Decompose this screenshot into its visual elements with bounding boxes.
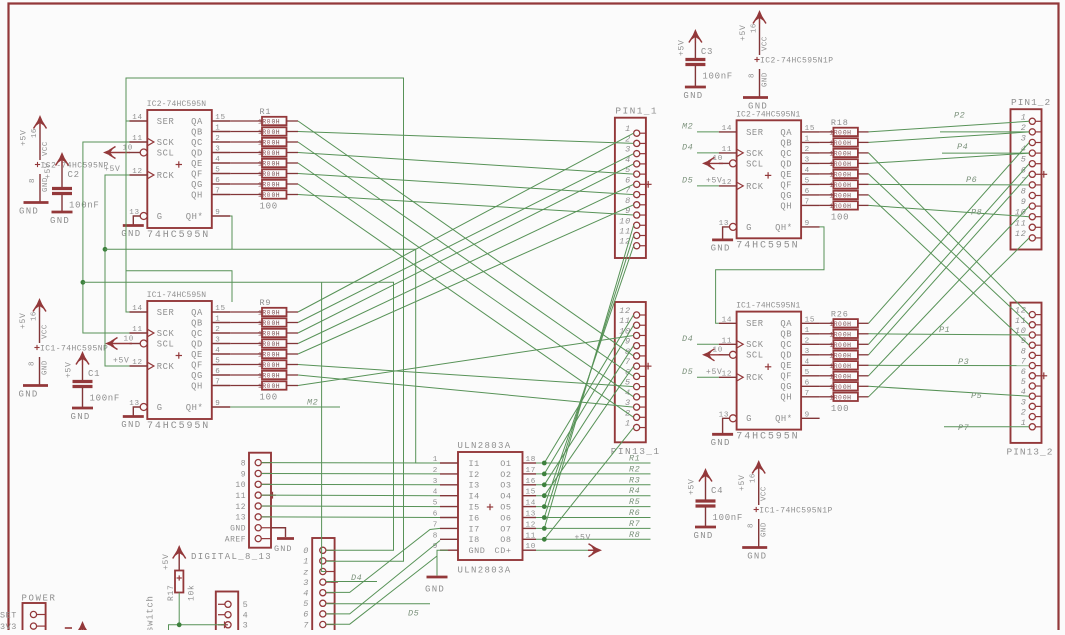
svg-text:QH: QH bbox=[780, 393, 792, 403]
svg-text:M2: M2 bbox=[682, 121, 693, 131]
svg-text:+5V: +5V bbox=[677, 39, 686, 56]
+5V arrow on ULN CD+ pin bbox=[536, 549, 588, 551]
svg-text:0H: 0H bbox=[272, 320, 280, 327]
svg-text:VCC: VCC bbox=[762, 36, 770, 51]
IC IC2-74HC595N1 74HC595 bbox=[711, 110, 820, 253]
power pins symbol IC1-74HC595NP (+5V / VCC 16, GND 8) bbox=[19, 298, 109, 400]
wires DIGITAL_8_13 pins 8-13 to ULN inputs I1-I6 bbox=[261, 462, 440, 464]
svg-text:1R0: 1R0 bbox=[829, 151, 842, 158]
svg-text:QE: QE bbox=[191, 350, 203, 360]
svg-text:1R0: 1R0 bbox=[829, 321, 842, 328]
svg-text:10: 10 bbox=[124, 336, 135, 344]
svg-text:14: 14 bbox=[526, 500, 537, 508]
svg-text:100nF: 100nF bbox=[713, 513, 744, 523]
svg-text:1R0: 1R0 bbox=[258, 192, 271, 199]
svg-text:P2: P2 bbox=[954, 111, 965, 121]
wire digital pin 4 to ULN I7 bbox=[326, 528, 440, 592]
svg-text:1: 1 bbox=[215, 316, 220, 324]
svg-text:RCK: RCK bbox=[746, 373, 764, 383]
svg-text:10: 10 bbox=[713, 346, 724, 354]
svg-text:2: 2 bbox=[215, 135, 220, 143]
svg-text:8: 8 bbox=[29, 361, 37, 366]
svg-text:1R0: 1R0 bbox=[829, 331, 842, 338]
svg-text:R18: R18 bbox=[831, 118, 849, 128]
svg-text:GND: GND bbox=[747, 552, 767, 562]
svg-text:M2: M2 bbox=[307, 398, 318, 408]
svg-text:9: 9 bbox=[805, 220, 810, 228]
svg-text:11: 11 bbox=[235, 492, 246, 501]
net label D5 stub at digital pin 5 bbox=[326, 603, 430, 605]
svg-text:18: 18 bbox=[526, 456, 537, 464]
svg-text:QG: QG bbox=[191, 371, 203, 381]
IC IC1-74HC595N 74HC595 bbox=[121, 291, 230, 432]
wires IC2/IC1 outputs to R1/R9 bbox=[230, 120, 262, 122]
svg-text:QE: QE bbox=[780, 361, 792, 371]
svg-text:7: 7 bbox=[805, 198, 810, 206]
svg-text:1R0: 1R0 bbox=[829, 342, 842, 349]
+5V arrow (cut at bottom edge) bbox=[78, 621, 88, 633]
svg-text:QD: QD bbox=[191, 339, 203, 349]
svg-text:R6: R6 bbox=[629, 508, 640, 518]
svg-text:C2: C2 bbox=[68, 170, 80, 180]
svg-text:3: 3 bbox=[215, 337, 220, 345]
svg-text:R9: R9 bbox=[260, 298, 272, 308]
svg-text:I2: I2 bbox=[469, 470, 480, 480]
svg-text:8: 8 bbox=[29, 178, 37, 183]
svg-text:8: 8 bbox=[625, 196, 631, 206]
svg-text:SET: SET bbox=[0, 611, 17, 621]
svg-text:2: 2 bbox=[215, 326, 220, 334]
svg-text:+5V: +5V bbox=[706, 368, 723, 377]
svg-text:ULN2803A: ULN2803A bbox=[458, 566, 512, 576]
svg-text:100: 100 bbox=[831, 404, 849, 414]
svg-text:QG: QG bbox=[780, 191, 792, 201]
svg-text:P1: P1 bbox=[939, 325, 950, 335]
svg-text:8: 8 bbox=[241, 459, 246, 468]
svg-text:P3: P3 bbox=[958, 357, 969, 367]
svg-text:1R0: 1R0 bbox=[258, 119, 271, 126]
capacitor C2 100nF bbox=[44, 152, 100, 226]
wire RCK chain bbox=[105, 175, 130, 366]
svg-text:SCK: SCK bbox=[157, 329, 175, 339]
svg-text:QH: QH bbox=[191, 381, 203, 391]
wires right IC outputs to R18/R26 bbox=[820, 131, 834, 133]
svg-text:QA: QA bbox=[780, 319, 792, 329]
svg-text:C3: C3 bbox=[701, 47, 713, 57]
svg-text:2: 2 bbox=[1021, 408, 1027, 418]
connector POWER (cut at bottom) bbox=[0, 594, 57, 634]
svg-text:R8: R8 bbox=[629, 530, 640, 540]
svg-text:1R0: 1R0 bbox=[829, 384, 842, 391]
svg-text:1R0: 1R0 bbox=[829, 140, 842, 147]
svg-text:0H: 0H bbox=[272, 140, 280, 147]
svg-text:1R0: 1R0 bbox=[829, 394, 842, 401]
wire IC2.SER loop to digital pin 1 bbox=[126, 78, 404, 561]
svg-text:7: 7 bbox=[625, 357, 631, 367]
svg-text:4: 4 bbox=[243, 611, 249, 621]
svg-text:0H: 0H bbox=[843, 193, 851, 200]
svg-text:5: 5 bbox=[1021, 155, 1027, 165]
svg-text:O2: O2 bbox=[500, 470, 511, 480]
svg-text:1: 1 bbox=[625, 124, 631, 134]
svg-text:5: 5 bbox=[215, 358, 220, 366]
svg-text:5: 5 bbox=[805, 177, 810, 185]
svg-text:P6: P6 bbox=[966, 175, 977, 185]
junction RCK chain bbox=[103, 247, 108, 252]
svg-text:QB: QB bbox=[780, 138, 792, 148]
svg-text:QF: QF bbox=[780, 372, 792, 382]
svg-text:D5: D5 bbox=[682, 175, 693, 185]
svg-text:74HC595N: 74HC595N bbox=[736, 432, 799, 443]
svg-text:74HC595N: 74HC595N bbox=[147, 230, 210, 241]
svg-text:GND: GND bbox=[71, 412, 91, 422]
power pins symbol IC2-74HC595NP (+5V / VCC 16, GND 8) bbox=[19, 115, 109, 217]
svg-text:QD: QD bbox=[780, 351, 792, 361]
ground on DIGITAL_8_13 GND pin bbox=[271, 528, 286, 537]
svg-text:1: 1 bbox=[625, 419, 631, 429]
svg-text:10: 10 bbox=[235, 481, 246, 490]
svg-text:+5V: +5V bbox=[65, 361, 74, 378]
svg-text:QA: QA bbox=[191, 308, 203, 318]
svg-text:14: 14 bbox=[132, 305, 143, 313]
svg-text:P7: P7 bbox=[958, 423, 970, 433]
svg-text:5: 5 bbox=[215, 167, 220, 175]
svg-text:16: 16 bbox=[526, 478, 537, 486]
wire IC2 QH* drop to bus bbox=[230, 216, 232, 249]
svg-text:CD+: CD+ bbox=[495, 546, 512, 556]
svg-text:0H: 0H bbox=[843, 203, 851, 210]
svg-text:11: 11 bbox=[619, 227, 631, 237]
svg-text:QB: QB bbox=[191, 127, 203, 137]
svg-text:POWER: POWER bbox=[22, 594, 57, 604]
wire x126 vertical to IC1.SER bbox=[126, 121, 130, 312]
wire SCK chain bbox=[83, 142, 130, 333]
svg-text:0H: 0H bbox=[843, 384, 851, 391]
svg-text:16: 16 bbox=[31, 311, 39, 321]
svg-text:1: 1 bbox=[805, 135, 810, 143]
svg-text:1R0: 1R0 bbox=[258, 171, 271, 178]
svg-text:12: 12 bbox=[722, 179, 733, 187]
svg-text:9: 9 bbox=[241, 470, 246, 479]
svg-text:QC: QC bbox=[780, 149, 792, 159]
svg-text:0H: 0H bbox=[843, 182, 851, 189]
svg-text:8: 8 bbox=[433, 532, 438, 540]
svg-text:SCL: SCL bbox=[746, 351, 764, 361]
svg-text:9: 9 bbox=[805, 411, 810, 419]
svg-text:1R0: 1R0 bbox=[829, 130, 842, 137]
svg-text:0H: 0H bbox=[272, 310, 280, 317]
svg-text:1R0: 1R0 bbox=[829, 352, 842, 359]
svg-text:11: 11 bbox=[722, 146, 733, 154]
svg-text:QD: QD bbox=[780, 159, 792, 169]
svg-text:+5V: +5V bbox=[739, 24, 748, 41]
+5V arrow on IC1 SCL pin bbox=[105, 339, 116, 348]
svg-text:VCC: VCC bbox=[761, 486, 769, 501]
power pins symbol IC1-74HC595N1P (+5V / VCC 16, GND 8) bbox=[738, 460, 833, 562]
wire y271 jog bbox=[126, 271, 232, 302]
svg-text:16: 16 bbox=[751, 23, 759, 33]
svg-text:I8: I8 bbox=[469, 535, 480, 545]
wire y282 bus to digital pin 0 bbox=[83, 282, 394, 550]
svg-text:1R0: 1R0 bbox=[829, 373, 842, 380]
svg-text:12: 12 bbox=[722, 370, 733, 378]
svg-text:QD: QD bbox=[191, 148, 203, 158]
svg-text:D5: D5 bbox=[408, 609, 419, 619]
svg-text:+5V: +5V bbox=[113, 357, 130, 366]
svg-text:D4: D4 bbox=[682, 142, 693, 152]
svg-text:1R0: 1R0 bbox=[258, 150, 271, 157]
svg-text:11: 11 bbox=[132, 326, 143, 334]
svg-text:VCC: VCC bbox=[42, 141, 50, 156]
svg-text:16: 16 bbox=[31, 128, 39, 138]
svg-text:GND: GND bbox=[694, 531, 714, 541]
svg-text:GND: GND bbox=[19, 207, 39, 217]
svg-text:IC1-74HC595N: IC1-74HC595N bbox=[147, 291, 206, 300]
svg-text:GND: GND bbox=[230, 525, 246, 534]
svg-text:GND: GND bbox=[761, 522, 769, 537]
svg-text:VCC: VCC bbox=[42, 324, 50, 339]
svg-text:6: 6 bbox=[805, 379, 810, 387]
svg-text:7: 7 bbox=[303, 620, 309, 630]
svg-text:0H: 0H bbox=[272, 171, 280, 178]
svg-text:0H: 0H bbox=[272, 150, 280, 157]
svg-text:1: 1 bbox=[303, 557, 309, 567]
svg-text:0H: 0H bbox=[843, 374, 851, 381]
svg-text:SER: SER bbox=[157, 117, 175, 127]
svg-text:13: 13 bbox=[719, 411, 730, 419]
svg-text:RCK: RCK bbox=[157, 171, 175, 181]
svg-text:13: 13 bbox=[129, 400, 140, 408]
svg-text:13: 13 bbox=[129, 209, 140, 217]
svg-text:QB: QB bbox=[191, 318, 203, 328]
svg-text:100nF: 100nF bbox=[69, 201, 100, 211]
svg-text:IC1-74HC595N1P: IC1-74HC595N1P bbox=[759, 507, 833, 516]
svg-text:R26: R26 bbox=[831, 309, 849, 319]
resistor array R26 (8x 100 ohm) bbox=[829, 309, 858, 414]
resistor R17 10k bbox=[162, 545, 197, 601]
svg-text:0H: 0H bbox=[843, 363, 851, 370]
svg-text:I6: I6 bbox=[469, 513, 480, 523]
svg-text:100: 100 bbox=[260, 393, 278, 403]
capacitor C3 100nF bbox=[677, 29, 733, 101]
svg-text:O7: O7 bbox=[500, 524, 511, 534]
svg-text:8: 8 bbox=[748, 523, 756, 528]
svg-text:0H: 0H bbox=[843, 332, 851, 339]
connector DIGITAL_0_7 (cut at bottom) bbox=[303, 538, 338, 633]
capacitor C4 100nF bbox=[688, 468, 744, 541]
svg-text:15: 15 bbox=[805, 316, 816, 324]
net M2 from IC1 QH* bbox=[230, 406, 340, 408]
svg-text:100nF: 100nF bbox=[90, 394, 121, 404]
svg-text:QH*: QH* bbox=[186, 403, 204, 413]
wires R18/R26 to PIN1_2 and PIN13_2 bbox=[858, 131, 869, 133]
svg-text:+5V: +5V bbox=[20, 129, 29, 146]
svg-text:0H: 0H bbox=[272, 331, 280, 338]
ULN output nets R1-R8 bbox=[536, 462, 651, 464]
svg-text:9: 9 bbox=[1021, 197, 1027, 207]
resistor array R18 (8x 100 ohm) bbox=[829, 118, 858, 222]
svg-text:3: 3 bbox=[625, 145, 631, 155]
svg-text:10k: 10k bbox=[188, 584, 197, 601]
svg-text:0H: 0H bbox=[843, 140, 851, 147]
svg-text:11: 11 bbox=[526, 532, 537, 540]
svg-text:10: 10 bbox=[123, 145, 134, 153]
svg-text:4: 4 bbox=[805, 167, 810, 175]
svg-text:3: 3 bbox=[1021, 397, 1027, 407]
svg-text:GND: GND bbox=[711, 438, 731, 448]
svg-text:11: 11 bbox=[619, 316, 631, 326]
svg-text:2: 2 bbox=[805, 146, 810, 154]
wire digital pin 7 bbox=[326, 556, 437, 624]
svg-text:1R0: 1R0 bbox=[258, 182, 271, 189]
svg-text:17: 17 bbox=[526, 467, 537, 475]
svg-text:8: 8 bbox=[749, 73, 757, 78]
svg-text:QH*: QH* bbox=[775, 223, 793, 233]
svg-text:0H: 0H bbox=[272, 352, 280, 359]
svg-text:74HC595N: 74HC595N bbox=[736, 240, 799, 251]
svg-text:SER: SER bbox=[157, 308, 175, 318]
svg-text:1R0: 1R0 bbox=[258, 310, 271, 317]
power pins symbol IC2-74HC595N1P (+5V / VCC 16, GND 8) bbox=[739, 10, 834, 112]
svg-text:11: 11 bbox=[722, 337, 733, 345]
svg-text:SCK: SCK bbox=[746, 340, 764, 350]
svg-text:R17: R17 bbox=[167, 584, 176, 601]
+5V arrow on IC1-N1 SCL bbox=[702, 350, 713, 359]
svg-text:0H: 0H bbox=[843, 395, 851, 402]
wire IC2-N1 QH* chain to IC1-N1 SER bbox=[716, 227, 824, 323]
svg-text:R2: R2 bbox=[629, 464, 640, 474]
ground below ULN2803A bbox=[437, 550, 448, 575]
svg-text:4: 4 bbox=[215, 347, 220, 355]
svg-text:11: 11 bbox=[132, 135, 143, 143]
net label stub P2 bbox=[940, 131, 1029, 133]
svg-text:SCK: SCK bbox=[157, 138, 175, 148]
connector PIN1_1 bbox=[615, 106, 658, 258]
svg-text:QH: QH bbox=[780, 201, 792, 211]
svg-text:G: G bbox=[746, 223, 752, 233]
svg-text:13: 13 bbox=[526, 511, 537, 519]
svg-text:G: G bbox=[157, 212, 163, 222]
svg-text:3: 3 bbox=[1021, 134, 1027, 144]
capacitor C1 100nF bbox=[65, 351, 121, 422]
connector PIN13_2 bbox=[1007, 303, 1054, 458]
connector PIN1_2 bbox=[1011, 97, 1052, 249]
svg-text:7: 7 bbox=[215, 379, 220, 387]
svg-text:C4: C4 bbox=[711, 486, 723, 496]
svg-text:R3: R3 bbox=[629, 475, 640, 485]
svg-text:SCL: SCL bbox=[746, 159, 764, 169]
svg-text:0H: 0H bbox=[843, 130, 851, 137]
svg-text:+5V: +5V bbox=[575, 534, 592, 543]
svg-text:AREF: AREF bbox=[225, 535, 246, 544]
svg-text:O6: O6 bbox=[500, 513, 511, 523]
svg-text:R4: R4 bbox=[629, 486, 640, 496]
svg-text:10: 10 bbox=[526, 543, 537, 551]
svg-text:GND: GND bbox=[121, 420, 141, 430]
svg-text:0H: 0H bbox=[843, 172, 851, 179]
svg-text:GND: GND bbox=[50, 216, 70, 226]
svg-text:1R0: 1R0 bbox=[829, 203, 842, 210]
svg-text:14: 14 bbox=[132, 114, 143, 122]
svg-text:3: 3 bbox=[243, 621, 249, 630]
svg-text:1R0: 1R0 bbox=[829, 363, 842, 370]
svg-text:0H: 0H bbox=[272, 119, 280, 126]
svg-text:+5V: +5V bbox=[688, 478, 697, 495]
svg-text:12: 12 bbox=[526, 521, 537, 529]
net label D4 into IC1-N1 SCK bbox=[697, 343, 719, 345]
resistor array R9 (8x 100 ohm) bbox=[258, 298, 287, 403]
svg-text:+5V: +5V bbox=[44, 162, 53, 179]
svg-text:0H: 0H bbox=[272, 362, 280, 369]
svg-text:0H: 0H bbox=[272, 383, 280, 390]
svg-text:0H: 0H bbox=[843, 151, 851, 158]
svg-text:z: z bbox=[303, 567, 309, 577]
svg-text:QG: QG bbox=[780, 382, 792, 392]
svg-text:GND: GND bbox=[19, 390, 39, 400]
svg-text:14: 14 bbox=[722, 316, 733, 324]
svg-text:I3: I3 bbox=[469, 481, 480, 491]
svg-text:1: 1 bbox=[215, 125, 220, 133]
svg-text:12: 12 bbox=[1015, 229, 1027, 239]
svg-text:IC2-74HC595N1P: IC2-74HC595N1P bbox=[760, 57, 834, 66]
net label stub P4 bbox=[942, 152, 1029, 154]
svg-text:12: 12 bbox=[132, 168, 143, 176]
svg-text:1R0: 1R0 bbox=[258, 320, 271, 327]
connector (analog pins 5,4,3 - cut at bottom) bbox=[216, 592, 249, 634]
svg-text:QC: QC bbox=[191, 329, 203, 339]
svg-text:12: 12 bbox=[132, 359, 143, 367]
IC IC1-74HC595N1 74HC595 bbox=[711, 302, 820, 448]
svg-text:7: 7 bbox=[433, 521, 438, 529]
svg-text:+5V: +5V bbox=[162, 553, 171, 570]
svg-text:6: 6 bbox=[303, 610, 309, 620]
wire to digital pin z bbox=[322, 282, 326, 571]
svg-text:R1: R1 bbox=[260, 107, 272, 117]
svg-text:SCL: SCL bbox=[157, 339, 175, 349]
svg-text:6: 6 bbox=[805, 188, 810, 196]
IC ULN2803A bbox=[433, 441, 536, 576]
svg-text:D4: D4 bbox=[682, 334, 693, 344]
net label stub P7 bbox=[944, 426, 1029, 428]
svg-text:QH: QH bbox=[191, 190, 203, 200]
svg-text:SCK: SCK bbox=[746, 149, 764, 159]
svg-text:3: 3 bbox=[805, 348, 810, 356]
svg-text:1R0: 1R0 bbox=[258, 352, 271, 359]
wire digital pin 6 to ULN I8 bbox=[326, 541, 440, 614]
svg-text:I1: I1 bbox=[469, 459, 480, 469]
+5V arrow on IC2 SCL pin bbox=[103, 148, 114, 157]
svg-text:1: 1 bbox=[1021, 112, 1027, 122]
svg-text:1R0: 1R0 bbox=[258, 129, 271, 136]
svg-text:0H: 0H bbox=[843, 321, 851, 328]
svg-text:O5: O5 bbox=[500, 503, 511, 513]
svg-text:4: 4 bbox=[805, 358, 810, 366]
svg-text:1R0: 1R0 bbox=[829, 182, 842, 189]
svg-text:1R0: 1R0 bbox=[258, 373, 271, 380]
svg-text:PIN13_2: PIN13_2 bbox=[1007, 447, 1054, 458]
svg-text:5: 5 bbox=[243, 600, 249, 610]
svg-text:ULN2803A: ULN2803A bbox=[458, 441, 512, 451]
wire R17 to connector pin 3 bbox=[178, 593, 180, 625]
svg-text:15: 15 bbox=[215, 114, 226, 122]
svg-text:DIGITAL_8_13: DIGITAL_8_13 bbox=[191, 552, 272, 562]
svg-text:QA: QA bbox=[780, 128, 792, 138]
svg-text:7: 7 bbox=[805, 390, 810, 398]
svg-text:1R0: 1R0 bbox=[258, 341, 271, 348]
svg-text:5: 5 bbox=[1021, 377, 1027, 387]
svg-text:QA: QA bbox=[191, 117, 203, 127]
connector PIN13_1 bbox=[611, 302, 661, 457]
